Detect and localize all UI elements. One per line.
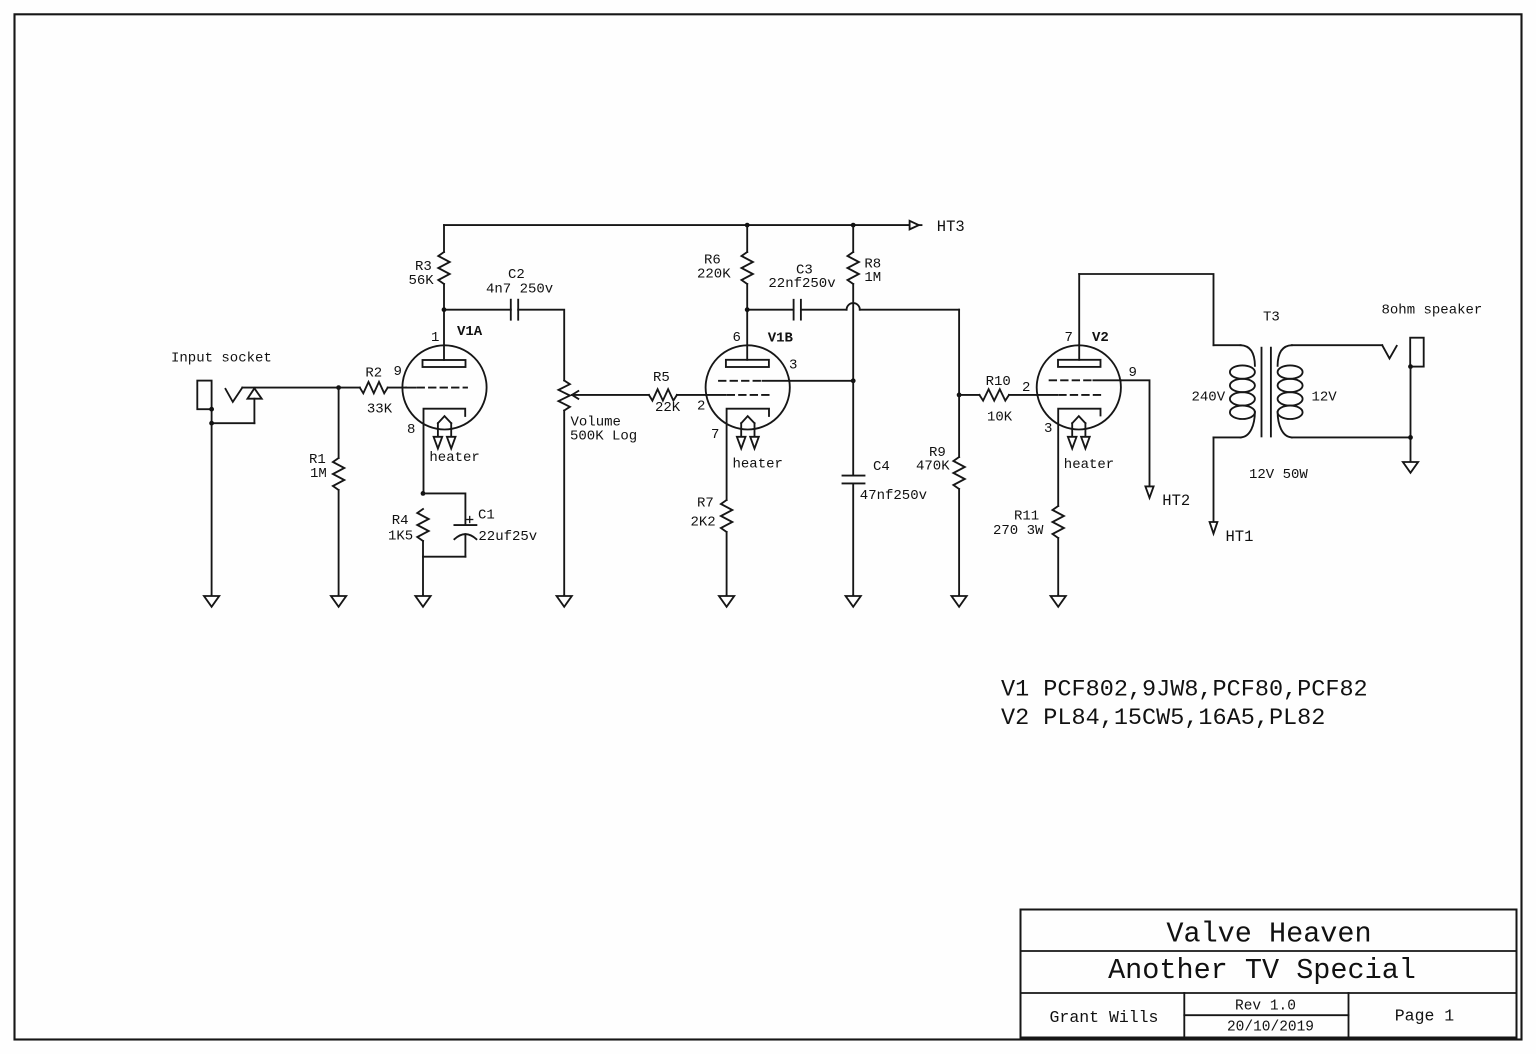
resistor R7 — [691, 496, 733, 597]
svg-text:V2: V2 — [1092, 330, 1109, 346]
svg-text:V1A: V1A — [457, 324, 483, 340]
svg-text:heater: heater — [429, 450, 479, 466]
potentiometer Volume 500K Log — [559, 381, 649, 597]
note tube substitution list V2 — [1001, 705, 1325, 732]
op-amp V2 output tube — [1022, 274, 1137, 506]
wire input to R2 — [242, 385, 359, 390]
note tube substitution list V1 — [1001, 677, 1368, 704]
wire R3 to C2 and V1A plate — [442, 307, 511, 312]
svg-text:220K: 220K — [697, 267, 731, 283]
resistor R2 — [360, 366, 406, 418]
svg-text:R10: R10 — [986, 374, 1011, 390]
svg-text:Rev 1.0: Rev 1.0 — [1235, 999, 1296, 1015]
svg-text:500K Log: 500K Log — [570, 429, 637, 445]
svg-text:240V: 240V — [1192, 390, 1226, 406]
svg-text:V1B: V1B — [768, 331, 794, 347]
svg-text:20/10/2019: 20/10/2019 — [1227, 1020, 1314, 1036]
svg-text:1: 1 — [431, 330, 439, 346]
title block — [1021, 910, 1517, 1038]
resistor R9 — [916, 393, 965, 597]
svg-text:47nf250v: 47nf250v — [860, 488, 927, 504]
svg-text:Page 1: Page 1 — [1395, 1007, 1455, 1026]
svg-text:10K: 10K — [987, 410, 1013, 426]
svg-text:1K5: 1K5 — [388, 529, 413, 545]
svg-text:8: 8 — [407, 422, 415, 438]
resistor R4 — [388, 491, 429, 596]
svg-text:R2: R2 — [365, 366, 382, 382]
ground — [1403, 462, 1418, 473]
svg-text:V1 PCF802,9JW8,PCF80,PCF82: V1 PCF802,9JW8,PCF80,PCF82 — [1001, 677, 1368, 704]
svg-text:270 3W: 270 3W — [993, 523, 1044, 539]
connector J1 input socket — [171, 351, 272, 426]
svg-text:2K2: 2K2 — [691, 515, 716, 531]
svg-text:R4: R4 — [392, 513, 409, 529]
resistor R11 — [993, 506, 1064, 596]
svg-text:8ohm speaker: 8ohm speaker — [1382, 303, 1483, 319]
resistor R6 — [697, 225, 753, 310]
wire V2 pin7 to transformer — [1079, 274, 1213, 345]
svg-text:22K: 22K — [655, 400, 681, 416]
node HT1 wire from transformer primary — [1210, 437, 1254, 546]
svg-text:12V: 12V — [1312, 390, 1338, 406]
svg-text:3: 3 — [789, 358, 797, 374]
op-amp V1B pentode tube — [697, 310, 797, 500]
capacitor C1 — [423, 493, 537, 556]
node HT2 wire from V2 pin9 — [1121, 380, 1190, 510]
ground — [719, 596, 734, 607]
resistor R10 — [959, 374, 1037, 426]
capacitor C2 — [486, 267, 553, 320]
svg-text:9: 9 — [1129, 365, 1137, 381]
connector 8ohm speaker jack — [1382, 303, 1483, 463]
svg-text:4n7 250v: 4n7 250v — [486, 282, 553, 298]
svg-text:7: 7 — [1065, 330, 1073, 346]
node HT3 — [910, 218, 965, 236]
resistor R3 — [409, 225, 450, 310]
wire C2 to volume pot — [518, 310, 564, 381]
op-amp V1A triode tube — [394, 310, 487, 493]
wire R6 to C3 — [745, 307, 794, 312]
svg-text:2: 2 — [1022, 380, 1030, 396]
svg-text:C1: C1 — [478, 508, 495, 524]
wire HT3 top bus — [444, 223, 910, 228]
svg-text:V2 PL84,15CW5,16A5,PL82: V2 PL84,15CW5,16A5,PL82 — [1001, 705, 1325, 732]
ground — [952, 596, 967, 607]
svg-text:HT1: HT1 — [1226, 528, 1254, 546]
svg-text:HT3: HT3 — [937, 218, 965, 236]
svg-text:33K: 33K — [367, 402, 393, 418]
ground — [557, 596, 572, 607]
svg-text:Another TV Special: Another TV Special — [1108, 954, 1416, 987]
capacitor C4 — [843, 381, 928, 596]
wire secondary to speaker — [1292, 345, 1411, 437]
svg-text:9: 9 — [394, 364, 402, 380]
svg-text:1M: 1M — [310, 466, 327, 482]
ground — [846, 596, 861, 607]
svg-text:56K: 56K — [409, 273, 435, 289]
svg-text:22uf25v: 22uf25v — [478, 529, 537, 545]
ground — [1051, 596, 1066, 607]
capacitor C3 — [768, 263, 835, 320]
svg-text:heater: heater — [733, 457, 783, 473]
svg-text:470K: 470K — [916, 459, 950, 475]
transformer T3 — [1192, 310, 1338, 484]
svg-text:12V 50W: 12V 50W — [1249, 467, 1308, 483]
resistor R1 — [309, 388, 344, 596]
svg-text:6: 6 — [733, 330, 741, 346]
svg-text:heater: heater — [1064, 457, 1114, 473]
svg-text:2: 2 — [697, 399, 705, 415]
svg-text:T3: T3 — [1263, 310, 1280, 326]
wire C3 to R9 with hop over R8 — [801, 303, 959, 395]
ground — [331, 596, 346, 607]
svg-text:HT2: HT2 — [1162, 492, 1190, 510]
svg-text:Valve Heaven: Valve Heaven — [1166, 918, 1371, 951]
wire V1B pin3 to R8 line — [789, 378, 855, 383]
svg-text:22nf250v: 22nf250v — [768, 276, 835, 292]
resistor R5 — [649, 370, 706, 416]
svg-text:R7: R7 — [697, 496, 714, 512]
svg-text:Input socket: Input socket — [171, 351, 272, 367]
ground — [204, 596, 219, 607]
resistor R8 — [848, 225, 882, 381]
svg-text:3: 3 — [1044, 421, 1052, 437]
ground — [415, 596, 430, 607]
svg-text:C4: C4 — [873, 459, 890, 475]
svg-text:R5: R5 — [653, 370, 670, 386]
svg-text:Grant Wills: Grant Wills — [1050, 1008, 1159, 1027]
svg-text:7: 7 — [711, 427, 719, 443]
wire input jack to ground — [211, 423, 213, 596]
svg-text:1M: 1M — [864, 270, 881, 286]
